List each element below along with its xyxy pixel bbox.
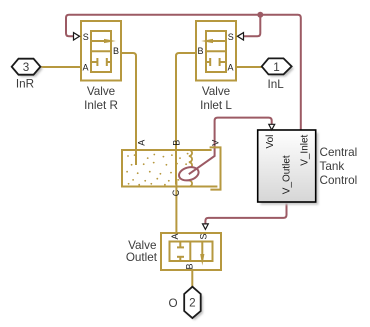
svg-text:A: A <box>170 233 180 239</box>
valve U2 Valve Inlet L <box>196 21 236 81</box>
tank liquid dots <box>126 153 188 186</box>
wire tank V to Vol <box>215 118 272 150</box>
inport 3 InR <box>12 59 43 91</box>
svg-text:Vol: Vol <box>265 135 276 149</box>
svg-text:S: S <box>83 32 89 42</box>
label Central Tank Control <box>320 146 358 187</box>
svg-text:InL: InL <box>267 78 284 91</box>
svg-text:B: B <box>171 140 181 146</box>
wire tank C to Valve Outlet port A <box>175 179 177 232</box>
label Valve Inlet L <box>200 85 232 112</box>
wire S branch to Valve Inlet L <box>243 15 260 36</box>
label Valve Outlet <box>126 239 158 264</box>
svg-text:3: 3 <box>23 61 30 74</box>
junction dot <box>257 12 263 18</box>
wire InR to Valve Inlet R port A <box>40 66 80 68</box>
svg-text:S: S <box>199 233 209 239</box>
tank level sensor ellipse <box>178 165 201 182</box>
port labels Valve Inlet L <box>198 32 234 73</box>
port S triangle of Valve Outlet <box>203 224 209 230</box>
svg-text:B: B <box>185 263 195 269</box>
svg-text:Valve: Valve <box>87 85 115 98</box>
svg-text:Control: Control <box>320 174 358 187</box>
tank outline <box>122 150 217 187</box>
tank liquid surface wave <box>189 150 192 187</box>
svg-text:S: S <box>228 32 234 42</box>
port labels Valve Inlet R <box>83 32 120 73</box>
svg-text:1: 1 <box>273 61 280 74</box>
tank T1 <box>122 140 221 197</box>
tank dip tube A <box>135 150 137 165</box>
label Valve Inlet R <box>84 85 118 112</box>
valve U3 Valve Outlet <box>161 233 221 270</box>
outport 2 O <box>168 287 202 321</box>
port labels Valve Outlet <box>170 233 209 269</box>
wire V_Outlet to Valve Outlet S <box>205 203 286 224</box>
svg-text:V_Outlet: V_Outlet <box>281 155 292 194</box>
svg-text:A: A <box>228 63 234 73</box>
port labels <box>265 134 310 194</box>
svg-text:Inlet R: Inlet R <box>84 99 118 112</box>
tank port labels <box>136 140 220 197</box>
port S triangle of Valve Inlet L <box>237 33 243 40</box>
wire Valve Inlet R port B to tank A <box>122 53 136 165</box>
port Vol triangle <box>269 124 275 130</box>
svg-text:C: C <box>171 189 181 196</box>
wire Valve Inlet L port B to tank B <box>176 53 196 185</box>
valve U1 Valve Inlet R <box>81 21 121 81</box>
svg-text:2: 2 <box>189 297 196 310</box>
wire Valve Outlet port B to outport 2 <box>191 271 193 288</box>
svg-text:V: V <box>210 140 220 146</box>
wire Valve Inlet L port A to InL <box>236 66 262 68</box>
wire S main feed (V_Inlet to valves) <box>66 15 301 130</box>
svg-text:Central: Central <box>320 146 358 159</box>
subsystem Central Tank Control <box>258 124 357 205</box>
svg-text:InR: InR <box>16 78 34 91</box>
svg-text:Tank: Tank <box>320 160 345 173</box>
port S triangle of Valve Inlet R <box>74 33 80 40</box>
svg-text:V_Inlet: V_Inlet <box>299 134 310 165</box>
svg-text:A: A <box>83 63 89 73</box>
svg-text:B: B <box>198 46 204 56</box>
tank sensor link line <box>189 150 215 174</box>
svg-text:O: O <box>168 297 177 310</box>
svg-text:Valve: Valve <box>202 85 230 98</box>
tank overflow bracket <box>210 147 221 189</box>
svg-text:Outlet: Outlet <box>126 251 158 264</box>
svg-text:B: B <box>113 46 119 56</box>
svg-text:Inlet L: Inlet L <box>200 99 232 112</box>
svg-text:A: A <box>136 140 146 146</box>
inport 1 InL <box>262 58 294 91</box>
